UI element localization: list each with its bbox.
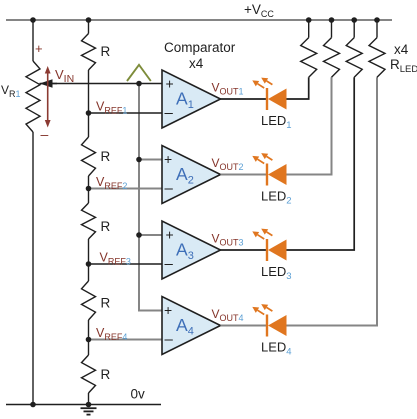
node top rail left junction <box>30 17 36 23</box>
wire Vout1 from A1 output to LED1 <box>221 98 267 100</box>
svg-text:–: – <box>165 331 174 348</box>
svg-text:VREF1: VREF1 <box>96 100 127 116</box>
wire top +Vcc rail <box>6 19 392 21</box>
wire LED4 anode to Rled4 <box>287 77 378 325</box>
resistor R (bottom) <box>88 340 90 356</box>
svg-text:RLED: RLED <box>390 57 417 75</box>
node Vref3 junction <box>86 261 92 267</box>
svg-text:–: – <box>165 180 174 197</box>
resistor Rled2 <box>331 20 333 38</box>
svg-text:VREF4: VREF4 <box>96 326 127 342</box>
wire Vref1 from divider to A1 - input <box>89 112 163 114</box>
wire Vout3 from A3 output to LED3 <box>221 249 267 251</box>
LED2 <box>252 153 286 185</box>
svg-text:VOUT4: VOUT4 <box>212 307 244 323</box>
resistor R (3rd) <box>88 189 90 204</box>
svg-text:0v: 0v <box>131 387 146 402</box>
op-amp comparator A2 <box>162 146 221 204</box>
resistor R (top) <box>82 34 96 71</box>
svg-text:+: + <box>166 76 174 92</box>
resistor Rled4 <box>376 20 378 38</box>
wire LED1 anode to Rled1 <box>287 77 309 99</box>
svg-text:VREF2: VREF2 <box>96 175 127 191</box>
divider chain: wire Vcc to R1 <box>88 20 90 34</box>
VR1 wiper arrow <box>40 83 58 85</box>
svg-text:R: R <box>101 44 111 59</box>
node bottom rail left junction <box>30 402 36 408</box>
node Rled4 to Vcc rail <box>374 17 380 23</box>
svg-text:R: R <box>101 149 111 164</box>
wire LED2 anode to Rled2 <box>287 77 332 174</box>
wire LED3 anode to Rled3 <box>287 77 355 250</box>
input signal peak symbol <box>127 65 151 81</box>
svg-text:–: – <box>165 105 174 122</box>
wire Vref3 from divider to A3 - input <box>89 263 163 265</box>
wire Vref4 from divider to A4 - input <box>89 339 163 341</box>
LED3 <box>252 229 286 261</box>
node top rail divider junction <box>86 17 92 23</box>
svg-text:VR1: VR1 <box>1 83 21 99</box>
resistor Rled1 <box>308 20 310 38</box>
op-amp comparator A1 <box>162 70 221 128</box>
svg-text:+: + <box>35 41 43 56</box>
resistor R (4th) <box>88 264 90 281</box>
node bottom rail divider junction <box>86 402 92 408</box>
node Vref4 junction <box>86 337 92 343</box>
wire Vin stub to A3 + <box>139 234 162 236</box>
svg-text:LED4: LED4 <box>261 340 292 358</box>
svg-text:+: + <box>164 302 172 318</box>
VR1 adjustment double arrow <box>47 71 49 123</box>
op-amp comparator A4 <box>162 297 221 355</box>
node Rled2 to Vcc rail <box>329 17 335 23</box>
node Vin junction <box>136 81 142 87</box>
svg-text:x4: x4 <box>189 56 204 71</box>
potentiometer VR1 body <box>26 61 40 132</box>
LED1 <box>252 78 286 110</box>
wire 0v bottom rail <box>6 404 161 406</box>
wire Vin from wiper to comparator inputs <box>50 83 162 85</box>
svg-text:VOUT1: VOUT1 <box>212 81 244 97</box>
resistor R (2nd) <box>88 113 90 138</box>
svg-text:+: + <box>164 151 172 167</box>
op-amp comparator A3 <box>162 221 221 279</box>
svg-text:VOUT2: VOUT2 <box>212 156 244 172</box>
svg-text:+VCC: +VCC <box>244 2 274 19</box>
wire Vout2 from A2 output to LED2 <box>221 174 267 176</box>
svg-text:VREF3: VREF3 <box>100 251 131 267</box>
svg-text:R: R <box>101 219 111 234</box>
svg-text:LED1: LED1 <box>261 113 292 131</box>
ground <box>81 408 97 414</box>
svg-text:LED3: LED3 <box>261 264 292 282</box>
svg-text:LED2: LED2 <box>261 189 292 207</box>
node Rled3 to Vcc rail <box>351 17 357 23</box>
wire left branch from Vcc rail down to VR1 <box>32 20 34 61</box>
svg-text:+: + <box>166 227 174 243</box>
wire Vout4 from A4 output to LED4 <box>221 325 267 327</box>
svg-text:–: – <box>41 126 49 142</box>
wire Vin stub to A2 + <box>139 159 162 161</box>
wire Vref2 from divider to A2 - input <box>89 188 163 190</box>
svg-text:VOUT3: VOUT3 <box>212 232 244 248</box>
node Vref2 junction <box>86 186 92 192</box>
node Vref1 junction <box>86 110 92 116</box>
svg-text:R: R <box>101 367 111 382</box>
svg-text:Comparator: Comparator <box>164 40 236 55</box>
wire from VR1 bottom to 0v rail <box>32 132 34 405</box>
svg-text:R: R <box>101 296 111 311</box>
svg-text:–: – <box>165 256 174 273</box>
node Rled1 to Vcc rail <box>306 17 312 23</box>
svg-text:x4: x4 <box>394 42 409 57</box>
LED4 <box>252 304 286 336</box>
svg-text:VIN: VIN <box>55 67 74 85</box>
resistor Rled3 <box>353 20 355 38</box>
wire Vin bus down left of comparators <box>139 84 162 311</box>
